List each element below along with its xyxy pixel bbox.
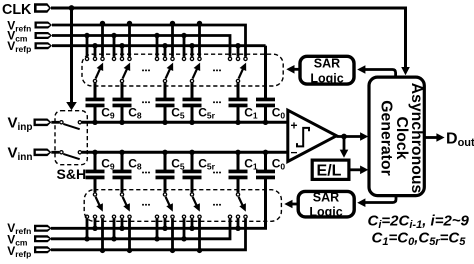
switch S1 (bottom bank) bbox=[237, 179, 240, 193]
wire Dout bbox=[425, 136, 437, 139]
comparator integrator symbol bbox=[297, 128, 309, 146]
wire Vcm rail (bottom) bbox=[51, 219, 230, 239]
svg-text:SAR: SAR bbox=[313, 191, 339, 205]
port Vinp bbox=[34, 119, 52, 127]
svg-text:E/L: E/L bbox=[317, 163, 342, 180]
svg-text:CLK: CLK bbox=[2, 2, 32, 18]
port Vrefp (bottom) bbox=[34, 246, 52, 253]
capacitor C9 (top bank) bbox=[86, 98, 105, 102]
wire C0 top plate to Vrefp bbox=[264, 46, 267, 98]
port CLK bbox=[34, 3, 51, 13]
wire Vrefn rail (top) bbox=[52, 25, 246, 57]
switch S8 (bottom bank) bbox=[121, 179, 124, 193]
capacitor C5 (bottom bank) bbox=[162, 150, 167, 155]
ellipsis top switch bank bbox=[142, 69, 144, 71]
capacitor C1 (bottom bank) bbox=[235, 150, 240, 155]
junction comparator output bbox=[341, 134, 347, 140]
dashed box: bottom switch bank bbox=[84, 190, 281, 222]
wire CLK to clock generator bbox=[51, 8, 406, 68]
ellipsis top cap bank bbox=[142, 101, 144, 103]
port Vrefn (bottom) bbox=[34, 225, 52, 232]
block E/L bbox=[312, 160, 349, 179]
port Vcm (top) bbox=[35, 32, 53, 39]
capacitor C0 (top bank) bbox=[256, 98, 275, 102]
dashed box: S&H bbox=[55, 111, 87, 165]
capacitor C0 (bottom bank) bbox=[263, 150, 268, 155]
wire Vinn to switch bbox=[51, 151, 59, 154]
wire Vrefp rail (bottom) bbox=[51, 219, 246, 250]
svg-text:+: + bbox=[291, 119, 298, 133]
wire Vrefp rail (top) bbox=[52, 44, 266, 47]
switch S9 (bottom bank) bbox=[94, 179, 97, 193]
wire SAR logic (bottom) to switches bbox=[291, 203, 298, 206]
wire Vcm rail (top) bbox=[52, 36, 230, 57]
wire CLK sampling branch bbox=[70, 8, 73, 103]
switch S8 (top bank) bbox=[113, 36, 116, 57]
svg-text:Generator: Generator bbox=[378, 100, 395, 176]
wire comparator + input rail bbox=[82, 121, 288, 124]
wire comparator output bbox=[337, 135, 362, 138]
wire Vinp to switch bbox=[51, 121, 59, 124]
block SAR logic (bottom) bbox=[298, 191, 354, 217]
switch S5 (top bank) bbox=[156, 36, 159, 57]
wire Vrefn rail (bottom) bbox=[51, 227, 267, 230]
svg-text:Logic: Logic bbox=[310, 71, 343, 85]
switch S5r (top bank) bbox=[183, 36, 186, 57]
wire comparator - input rail bbox=[82, 151, 288, 154]
capacitor C5 (top bank) bbox=[156, 98, 175, 102]
wire SAR logic (top) to switches bbox=[293, 68, 299, 71]
wire comparator output to E/L bbox=[343, 137, 346, 152]
capacitor C8 (bottom bank) bbox=[119, 150, 124, 155]
capacitor C1 (top bank) bbox=[229, 98, 248, 102]
port Vcm (bottom) bbox=[34, 235, 52, 242]
svg-text:SAR: SAR bbox=[314, 56, 340, 70]
op-amp comparator U1 bbox=[288, 110, 337, 161]
switch S&H input p bbox=[60, 121, 63, 124]
capacitor C5r (top bank) bbox=[183, 98, 202, 102]
switch S&H input n bbox=[60, 151, 63, 154]
block asynchronous clock generator bbox=[369, 77, 424, 196]
ellipsis bottom cap bank bbox=[142, 172, 144, 174]
junction CLK branch bbox=[69, 5, 75, 11]
switch S5 (bottom bank) bbox=[164, 179, 167, 193]
port Vrefn (top) bbox=[35, 22, 53, 29]
port Vrefp (top) bbox=[35, 42, 53, 49]
switch S5r (bottom bank) bbox=[191, 179, 194, 193]
svg-text:−: − bbox=[291, 145, 298, 159]
wire clock generator to SAR logic (top) bbox=[364, 70, 396, 78]
ellipsis bottom switch bank bbox=[142, 204, 144, 206]
dashed box: top switch bank bbox=[82, 54, 283, 86]
wire E/L to clock generator bbox=[351, 168, 362, 171]
port Vinn bbox=[34, 149, 52, 157]
svg-text:Logic: Logic bbox=[309, 205, 342, 219]
wire clock generator to SAR logic (bottom) bbox=[364, 195, 396, 203]
svg-text:S&H: S&H bbox=[57, 166, 87, 182]
capacitor C9 (bottom bank) bbox=[92, 150, 97, 155]
switch S9 (top bank) bbox=[86, 36, 89, 57]
block SAR logic (top) bbox=[300, 56, 354, 84]
capacitor C5r (bottom bank) bbox=[189, 150, 194, 155]
wire C0 bottom plate to Vrefn (bottom) bbox=[264, 179, 267, 229]
switch S1 (top bank) bbox=[237, 46, 240, 57]
capacitor C8 (top bank) bbox=[113, 98, 132, 102]
